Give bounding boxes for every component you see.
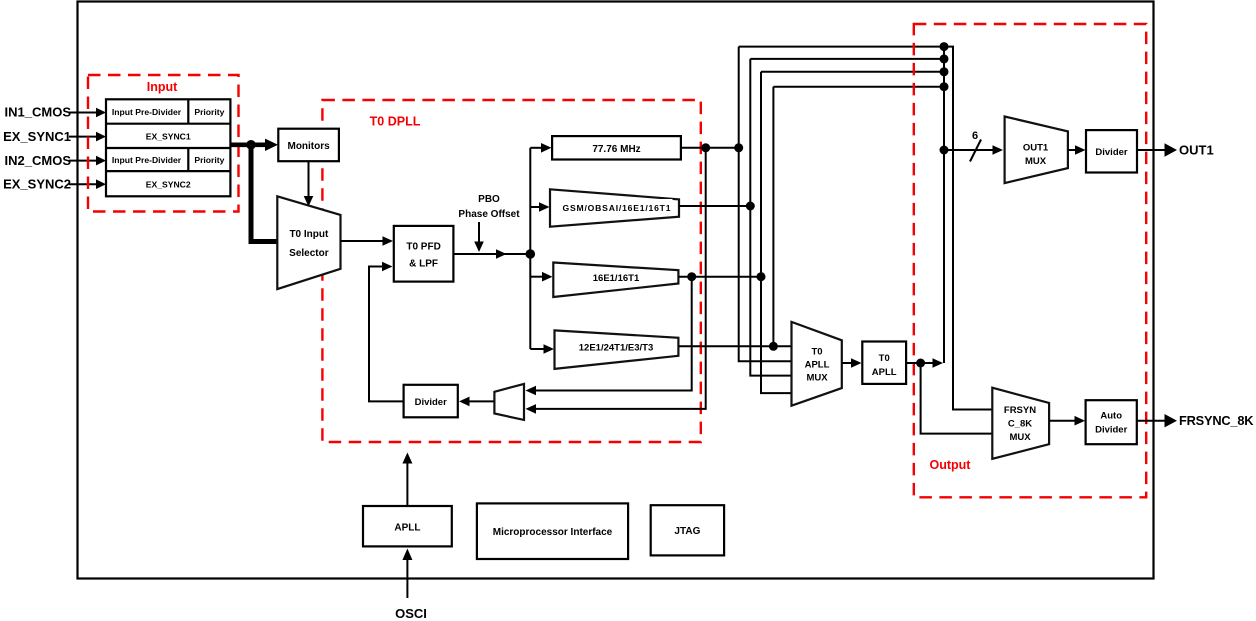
T0 DPLL block dashed box bbox=[322, 100, 700, 442]
divider 12E1/24T1/E3/T3 bbox=[555, 330, 679, 369]
node bus B1 at L4 bbox=[940, 82, 949, 91]
wire stub to 12E1 divider bbox=[530, 344, 554, 354]
input stage stack bbox=[106, 99, 230, 196]
svg-text:Divider: Divider bbox=[1095, 147, 1128, 158]
Microprocessor Interface bbox=[477, 503, 628, 559]
mux OUT1 MUX bbox=[1005, 117, 1068, 184]
wire stub to 16E1 divider bbox=[530, 272, 552, 282]
svg-text:OUT1: OUT1 bbox=[1179, 143, 1214, 158]
node GSM to riser R2 bbox=[746, 202, 755, 211]
svg-text:MUX: MUX bbox=[806, 373, 828, 384]
wire Divider to T0 PFD feedback bbox=[369, 262, 404, 402]
wire IN2_CMOS input bbox=[69, 156, 106, 166]
mux T0 APLL MUX bbox=[792, 322, 842, 406]
svg-text:EX_SYNC2: EX_SYNC2 bbox=[3, 177, 71, 192]
wire OUT1 MUX to Divider bbox=[1068, 145, 1086, 155]
node input junction bbox=[246, 140, 256, 150]
Auto Divider bbox=[1086, 400, 1137, 444]
svg-text:Input Pre-Divider: Input Pre-Divider bbox=[112, 155, 182, 165]
wire PFD output bbox=[453, 249, 530, 259]
node 77.76 feedback tap bbox=[701, 143, 710, 152]
svg-text:PBO: PBO bbox=[478, 194, 500, 205]
Divider (OUT1) bbox=[1086, 130, 1137, 172]
node 16E1 to riser R3 bbox=[757, 272, 766, 281]
JTAG bbox=[651, 505, 724, 555]
wire riser R2 bbox=[750, 59, 791, 376]
wire PBO arrow bbox=[474, 222, 484, 252]
wire node to Monitors (thick arrow) bbox=[251, 139, 278, 151]
svg-text:Output: Output bbox=[930, 458, 972, 472]
wire stack to node bbox=[230, 143, 251, 148]
svg-text:FRSYN: FRSYN bbox=[1004, 405, 1036, 416]
wire vertical bus B1 bbox=[943, 47, 945, 363]
svg-text:T0: T0 bbox=[811, 347, 822, 358]
wire FRSYNC mux to Auto Divider bbox=[1049, 416, 1085, 426]
svg-text:EX_SYNC1: EX_SYNC1 bbox=[3, 129, 71, 144]
Monitors bbox=[278, 129, 339, 162]
wire Monitors to selector bbox=[304, 161, 314, 206]
wire EX_SYNC2 input bbox=[69, 179, 106, 189]
svg-text:6: 6 bbox=[972, 130, 978, 142]
svg-text:APLL: APLL bbox=[805, 360, 830, 371]
wire IN1_CMOS input bbox=[69, 108, 106, 118]
Output block dashed box bbox=[914, 24, 1146, 497]
node 77.76 to riser R1 bbox=[734, 143, 743, 152]
wire Divider to OUT1 pin bbox=[1137, 143, 1177, 156]
svg-text:12E1/24T1/E3/T3: 12E1/24T1/E3/T3 bbox=[579, 343, 653, 354]
wire top bus line L2 bbox=[750, 58, 944, 60]
wire top bus line L1 bbox=[739, 47, 993, 410]
svg-text:Input: Input bbox=[147, 80, 178, 94]
wire APLL to T0 DPLL bbox=[402, 453, 412, 507]
wire GSM output bbox=[679, 205, 750, 207]
wire T0 APLL output to bus B1 bbox=[906, 358, 943, 368]
svg-text:Phase Offset: Phase Offset bbox=[458, 209, 520, 220]
svg-text:Priority: Priority bbox=[194, 107, 224, 117]
node 16E1 feedback tap bbox=[687, 272, 696, 281]
svg-text:Monitors: Monitors bbox=[287, 141, 330, 152]
svg-text:Auto: Auto bbox=[1100, 411, 1122, 422]
mux feedback select bbox=[494, 384, 524, 420]
mux T0 Input Selector bbox=[277, 196, 340, 289]
svg-text:EX_SYNC2: EX_SYNC2 bbox=[146, 180, 191, 190]
svg-text:Microprocessor Interface: Microprocessor Interface bbox=[493, 527, 613, 538]
T0 PFD & LPF bbox=[394, 226, 454, 282]
svg-text:T0 DPLL: T0 DPLL bbox=[370, 115, 421, 129]
wire top bus line L3 bbox=[761, 71, 944, 73]
svg-text:Divider: Divider bbox=[415, 397, 448, 408]
svg-text:JTAG: JTAG bbox=[674, 526, 700, 537]
wire selector to T0 PFD bbox=[341, 236, 394, 246]
wire feedback mux to Divider bbox=[459, 397, 494, 407]
svg-text:Divider: Divider bbox=[1095, 425, 1128, 436]
svg-text:Selector: Selector bbox=[289, 248, 329, 259]
svg-text:77.76 MHz: 77.76 MHz bbox=[592, 144, 640, 155]
node bus B1 at L1 bbox=[940, 42, 949, 51]
bus width slash bbox=[970, 140, 981, 162]
wire 77.76 tap to feedback mux bbox=[526, 148, 706, 414]
wire 16E1 tap to feedback mux bbox=[526, 277, 692, 396]
svg-text:IN2_CMOS: IN2_CMOS bbox=[5, 153, 72, 168]
svg-text:Priority: Priority bbox=[194, 155, 224, 165]
mux FRSYNC_8K MUX bbox=[992, 388, 1049, 459]
wire riser R4 bbox=[772, 87, 774, 347]
svg-text:MUX: MUX bbox=[1009, 432, 1031, 443]
svg-text:IN1_CMOS: IN1_CMOS bbox=[5, 105, 72, 120]
wire riser R1 bbox=[739, 47, 792, 362]
svg-text:T0 PFD: T0 PFD bbox=[406, 242, 440, 253]
svg-text:APLL: APLL bbox=[394, 523, 420, 534]
divider 16E1/16T1 bbox=[553, 263, 678, 298]
wire OSCI to APLL bbox=[402, 549, 412, 599]
node bus B1 at L2 bbox=[940, 54, 949, 63]
svg-text:16E1/16T1: 16E1/16T1 bbox=[593, 273, 640, 284]
wire 77.76 MHz output bbox=[681, 147, 739, 149]
divider GSM/OBSAI/16E1/16T1 bbox=[550, 189, 679, 226]
Input block dashed box bbox=[88, 75, 239, 212]
wire top bus line L4 bbox=[773, 86, 944, 88]
wire stub to GSM divider bbox=[530, 202, 549, 212]
svg-text:MUX: MUX bbox=[1025, 156, 1047, 167]
node 12E1 to riser R4 bbox=[769, 342, 778, 351]
svg-text:GSM/OBSAI/16E1/16T1: GSM/OBSAI/16E1/16T1 bbox=[563, 203, 671, 213]
svg-text:C_8K: C_8K bbox=[1008, 419, 1032, 430]
wire T0 APLL to FRSYNC mux bbox=[921, 363, 993, 434]
node T0 APLL output bbox=[916, 359, 925, 368]
wire Auto Divider to FRSYNC_8K pin bbox=[1137, 414, 1177, 427]
divider 77.76 MHz bbox=[552, 136, 681, 159]
wire clock branch vertical bbox=[529, 148, 531, 349]
svg-text:T0 Input: T0 Input bbox=[289, 229, 329, 240]
wire 16E1 output bbox=[678, 276, 761, 278]
APLL bbox=[363, 506, 452, 546]
svg-text:& LPF: & LPF bbox=[409, 259, 438, 270]
node bus B1 at L3 bbox=[940, 67, 949, 76]
wire stub to 77.76 MHz bbox=[530, 143, 551, 153]
label PBO Phase Offset bbox=[458, 194, 520, 220]
wire riser R3 bbox=[761, 72, 792, 393]
svg-text:T0: T0 bbox=[879, 353, 890, 364]
wire 12E1 output to T0 APLL MUX bbox=[678, 345, 791, 347]
wire EX_SYNC1 input bbox=[69, 132, 106, 142]
svg-text:EX_SYNC1: EX_SYNC1 bbox=[146, 132, 191, 142]
svg-text:OUT1: OUT1 bbox=[1023, 143, 1049, 154]
wire T0 APLL MUX to T0 APLL bbox=[842, 358, 862, 368]
T0 APLL bbox=[862, 342, 906, 384]
Divider (T0 DPLL feedback) bbox=[404, 385, 458, 418]
svg-text:FRSYNC_8K: FRSYNC_8K bbox=[1179, 413, 1254, 428]
svg-text:Input Pre-Divider: Input Pre-Divider bbox=[112, 107, 182, 117]
outer frame bbox=[78, 2, 1154, 579]
wire OUT1 branch to OUT1 MUX bbox=[944, 145, 1003, 155]
node bus B1 OUT1 branch bbox=[940, 146, 949, 155]
svg-text:OSCI: OSCI bbox=[395, 606, 427, 621]
wire node to T0 Input Selector (thick) bbox=[251, 145, 277, 242]
node PFD out junction bbox=[526, 249, 536, 259]
svg-text:APLL: APLL bbox=[872, 367, 897, 378]
